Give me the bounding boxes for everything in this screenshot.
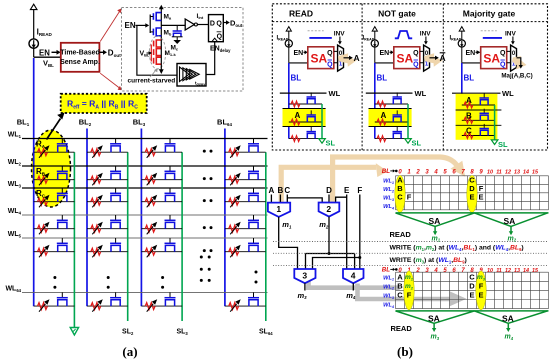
sense amp SA (READ) (308, 47, 334, 69)
svg-text:BL: BL (464, 74, 475, 83)
1T1R cell WL_4 / BL_3 (141, 215, 182, 234)
svg-text:READ: READ (391, 324, 413, 333)
wire m2 output to gates 3 and 4 (306, 217, 355, 269)
svg-text:EN: EN (294, 50, 304, 57)
svg-text:11: 11 (496, 268, 502, 274)
SL arrow and label (NOT) (405, 139, 422, 148)
svg-text:READ: READ (289, 9, 313, 19)
svg-text:4: 4 (433, 268, 438, 274)
current direction arrow below stack (159, 66, 164, 74)
dotted separator line 2 (273, 252, 548, 254)
svg-text:(a): (a) (122, 344, 137, 359)
svg-text:BL: BL (382, 168, 390, 175)
gray write arrow m3 to lower grid (306, 276, 400, 288)
lower SA fan 1 (396, 311, 475, 341)
svg-text:13: 13 (514, 268, 520, 274)
svg-text:15: 15 (532, 169, 539, 175)
dashed title separator line (272, 21, 547, 23)
svg-text:D: D (326, 186, 332, 195)
lower grid yellow column 1 highlight (404, 271, 414, 310)
svg-text:current-starved: current-starved (128, 77, 176, 84)
1T1R cell WL_1 / BL_1 (34, 139, 75, 158)
dotted separator line 1 (273, 241, 548, 243)
upper grid yellow column 8 highlight (467, 175, 477, 212)
INV select arrow (NOT) (420, 31, 432, 45)
majority gate 2 (319, 203, 340, 217)
wire F input down (359, 195, 361, 258)
wire WL_1 row line (22, 138, 268, 140)
wire WL_4 row line (22, 214, 268, 216)
upper SA fan 2 (474, 213, 547, 243)
mux (Majority) (511, 45, 517, 71)
wire WL_2 thin (Majority) (456, 109, 502, 111)
WL line and label (NOT) (366, 89, 427, 98)
svg-text:F: F (357, 186, 362, 195)
svg-text:10: 10 (487, 268, 493, 274)
wires Q and Qbar to mux (READ) (334, 51, 338, 62)
column ellipsis dots (between BL_3 and BL_64) (203, 150, 213, 253)
sense amp SA (Majority) (481, 47, 507, 69)
1T1R cell WL_64 / BL_3 (141, 292, 182, 311)
EN input (NOT) (380, 50, 394, 57)
EN input (inset) (125, 21, 150, 30)
wire M_a/M_b stack rail (160, 12, 162, 40)
svg-text:Maj(A,B,C): Maj(A,B,C) (501, 73, 532, 80)
current source I_READ (NOT panel) (363, 27, 379, 63)
svg-text:SA: SA (502, 314, 514, 324)
svg-text:A: A (354, 53, 360, 63)
svg-text:EN: EN (39, 48, 50, 57)
svg-text:B: B (397, 282, 403, 291)
svg-text:B: B (278, 186, 284, 195)
svg-text:SL: SL (412, 139, 422, 148)
current source I_READ (READ panel) (277, 27, 293, 63)
wire EN gate rail (149, 15, 151, 34)
INV select arrow (Majority) (505, 31, 517, 45)
wire SL vertical (Majority) (494, 105, 496, 140)
waveform flat (READ) (308, 31, 332, 38)
D_out output (inset) (223, 19, 242, 28)
1T1R cell WL_3 / BL_2 (87, 188, 128, 207)
lower grid WL row labels (383, 275, 395, 309)
svg-text:BL: BL (291, 74, 302, 83)
wire V_BL node (34, 57, 61, 68)
svg-text:A: A (397, 272, 403, 281)
svg-text:14: 14 (523, 268, 529, 274)
svg-text:D: D (469, 282, 475, 291)
svg-text:1: 1 (276, 204, 281, 214)
svg-text:READ: READ (390, 230, 412, 239)
dashed panel separator NOT/Majority (442, 4, 444, 150)
wire BL to SA (READ) (289, 62, 308, 64)
upper grid stored letters (397, 176, 483, 202)
svg-text:10: 10 (487, 169, 493, 175)
svg-text:14: 14 (523, 169, 529, 175)
transistor M_a (150, 13, 172, 21)
wire m4 output (352, 283, 354, 290)
wire F branch to gates 3 and 4 (313, 258, 360, 270)
svg-text:SA: SA (429, 216, 441, 226)
wire E input with branch to gate2 and down to gate4 (336, 195, 347, 270)
svg-text:Sense Amp.: Sense Amp. (60, 59, 100, 66)
D_out output arrow (99, 48, 121, 58)
svg-text:(b): (b) (397, 344, 413, 359)
panel (a) crossbar array (5, 4, 273, 359)
svg-text:Q: Q (216, 21, 222, 28)
svg-text:SL: SL (326, 139, 336, 148)
transistor stack M_1-k (current starved, red) (151, 40, 176, 66)
1T1R cell WL_1 / BL_64 (225, 139, 266, 158)
svg-text:12: 12 (505, 169, 511, 175)
svg-text:E: E (344, 186, 350, 195)
lower memory grid (396, 272, 549, 308)
svg-text:WRITE (m3) at (WL1,BL9): WRITE (m3) at (WL1,BL9) (390, 257, 467, 264)
wire BL vertical (READ) (288, 63, 290, 139)
svg-text:NOT gate: NOT gate (378, 9, 416, 19)
lower SA fan 2 (474, 311, 547, 341)
svg-text:A: A (466, 96, 472, 105)
yellow highlight band (NOT) (369, 109, 412, 127)
upper grid BL header (382, 168, 398, 175)
wire delay loop (206, 42, 215, 75)
waveform flat (Majority) (481, 31, 502, 38)
red callout lines to inset (100, 8, 122, 90)
svg-text:A: A (381, 111, 387, 120)
wire BL to SA (Majority) (462, 62, 481, 64)
wire C input with branch to gate2 (287, 195, 322, 203)
1T1R cell WL_64 / BL_1 (34, 292, 75, 311)
wire WL_64 row line (22, 291, 268, 293)
1T1R cell WL_2 / BL_64 (225, 166, 266, 185)
svg-text:tdelay: tdelay (195, 81, 205, 87)
svg-text:A: A (295, 111, 301, 120)
wire WL_2 thin (NOT) (369, 108, 412, 110)
svg-text:F: F (479, 282, 484, 291)
wire WL_2 thin (READ) (283, 108, 326, 110)
1T1R cell WL_2 / BL_3 (141, 166, 182, 185)
wires Q and Qbar to mux (NOT) (420, 51, 424, 62)
svg-text:BL: BL (377, 74, 388, 83)
1T1R cell WL_64 / BL_64 (225, 292, 266, 311)
lower grid m1 m2 m3 written values (405, 274, 486, 290)
svg-text:WL: WL (415, 89, 427, 98)
cell row1 stored A (Majority) (462, 93, 495, 108)
mux (READ) (338, 45, 344, 71)
wires Q and Qbar to mux (Majority) (507, 51, 511, 62)
svg-text:B: B (466, 112, 472, 121)
cell row1 (READ) (289, 92, 322, 107)
wire BL_1 vertical (blue) (33, 58, 35, 306)
VDD arrow (inset) (159, 5, 164, 13)
svg-text:INV: INV (420, 31, 432, 38)
row ellipsis dots (between WL_5 and WL_64) (53, 256, 257, 289)
svg-text:D: D (210, 21, 215, 28)
svg-text:2: 2 (326, 204, 331, 214)
svg-text:SA: SA (504, 216, 516, 226)
inverter (inset) (185, 19, 197, 30)
cell row3 (READ) (289, 127, 322, 141)
1T1R cell WL_5 / BL_3 (141, 238, 182, 257)
cell row3 stored C (Majority) (462, 124, 495, 138)
upper SA fan 1 (396, 213, 475, 243)
majority gate 1 (268, 203, 290, 217)
1T1R cell WL_3 / BL_3 (141, 188, 182, 207)
yellow highlight band (Majority) (456, 94, 498, 140)
svg-text:SA: SA (428, 314, 440, 324)
svg-text:A: A (440, 53, 446, 63)
wire WL_3 thin (Majority) (456, 124, 502, 126)
1T1R cell WL_3 / BL_64 (225, 188, 266, 207)
svg-text:SL: SL (498, 140, 508, 149)
svg-text:A: A (269, 186, 275, 195)
dashed panel separator READ/NOT (361, 4, 363, 150)
wire BL_3 vertical (blue) (140, 129, 142, 307)
svg-text:C: C (397, 193, 403, 202)
majority gate 4 (343, 269, 364, 283)
svg-text:EN: EN (125, 21, 136, 30)
1T1R cell WL_5 / BL_2 (87, 238, 128, 257)
svg-text:E: E (478, 193, 483, 202)
output arrow Abar (NOT) (424, 53, 446, 67)
wire SL_2 vertical (green) (127, 152, 129, 321)
lower grid yellow column 9 highlight (476, 271, 486, 310)
upper memory grid (396, 176, 549, 210)
svg-text:15: 15 (532, 268, 539, 274)
waveform pulse (NOT) (395, 31, 412, 38)
svg-text:3: 3 (302, 271, 307, 281)
cell row3 (NOT) (375, 127, 408, 141)
wire SL_1 vertical (green) (73, 152, 75, 327)
tan flow arrow from gate2 inputs to second stored column (333, 157, 466, 203)
svg-text:C: C (284, 186, 290, 195)
EN input (READ) (294, 50, 308, 57)
svg-text:C: C (466, 127, 472, 136)
output arrow A (READ) (338, 53, 360, 67)
1T1R cell WL_2 / BL_2 (87, 166, 128, 185)
INV select arrow (READ) (334, 31, 346, 45)
svg-text:E: E (469, 291, 474, 300)
output arrow Maj(A,B,C) (Majority) (501, 56, 532, 80)
wire m3 output (304, 283, 306, 290)
1T1R cell WL_3 / BL_1 (34, 188, 75, 207)
EN input (Majority) (466, 50, 481, 57)
svg-text:EN: EN (380, 50, 390, 57)
svg-text:E: E (469, 193, 474, 202)
svg-text:BL: BL (382, 267, 390, 274)
wire EN branch down-left (137, 25, 177, 75)
svg-text:INV: INV (334, 31, 346, 38)
svg-text:F: F (407, 291, 412, 300)
svg-text:E: E (478, 291, 483, 300)
wire A input (270, 195, 272, 203)
svg-text:Majority gate: Majority gate (463, 9, 516, 19)
yellow highlight band (READ) (283, 109, 326, 127)
transistor M_c (171, 25, 183, 51)
panel (b) bottom: majority logic mapping (268, 157, 549, 359)
wire node to inverter (161, 24, 185, 26)
upper grid green bottom rail (396, 212, 549, 214)
svg-text:WL: WL (502, 89, 514, 98)
current source I_READ (panel a) (29, 4, 53, 57)
svg-text:INV: INV (505, 31, 517, 38)
1T1R cell WL_2 / BL_1 (34, 166, 75, 185)
svg-text:EN: EN (466, 50, 476, 57)
Time-Based Sense Amp box (60, 43, 100, 72)
current source I_READ (Majority panel) (450, 27, 466, 63)
svg-text:WRITE (m1,m2) at (WL4,BL1) and: WRITE (m1,m2) at (WL4,BL1) and (WL4,BL9) (390, 245, 524, 252)
WL line and label (Majority) (452, 89, 514, 98)
highlight ellipse around R_A R_B R_C cells (32, 130, 71, 207)
1T1R cell WL_5 / BL_1 (34, 238, 75, 257)
wire SL_3 vertical (green) (181, 152, 183, 321)
lower grid BL header (382, 267, 398, 274)
svg-text:Time-Based: Time-Based (60, 50, 100, 57)
arrow from ellipse to R_eff box (47, 113, 65, 140)
wire BL vertical (NOT) (374, 63, 376, 139)
dotted separator line 3 (273, 265, 548, 267)
tan flow arrow from gate1 inputs to first stored column (281, 163, 388, 202)
current-starved dashed ellipse (149, 36, 165, 69)
panel (b) top: READ / NOT gate / Majority gate (272, 4, 547, 150)
wire BL to SA (NOT) (375, 62, 394, 64)
D flip-flop U_FF (209, 15, 224, 42)
wire BL_64 vertical (blue) (224, 129, 226, 307)
wire WL_3 thin (NOT) (369, 126, 412, 128)
wire BL vertical (Majority) (461, 63, 463, 136)
wire m1 output to gate3 (279, 217, 298, 269)
svg-text:12: 12 (505, 268, 511, 274)
EN input arrow (panel a) (39, 48, 61, 57)
wire B input (279, 195, 281, 203)
ground symbol under M_c (173, 37, 181, 44)
wire SL vertical (NOT) (407, 104, 409, 138)
1T1R cell WL_4 / BL_1 (34, 215, 75, 234)
SL arrow and label (READ) (319, 139, 336, 148)
ground arrow at SL_1 (70, 328, 78, 336)
sense amp SA (NOT) (394, 47, 420, 69)
1T1R cell WL_5 / BL_64 (225, 238, 266, 257)
wire WL_3 thin (READ) (283, 126, 326, 128)
wire SL vertical (READ) (321, 104, 323, 138)
svg-text:11: 11 (496, 169, 502, 175)
svg-text:WL: WL (329, 89, 341, 98)
wire BL_2 vertical (blue) (86, 129, 88, 307)
1T1R cell WL_1 / BL_2 (87, 139, 128, 158)
cell row2 stored A (NOT) (375, 110, 408, 125)
upper grid yellow column 0 highlight (395, 175, 405, 212)
svg-text:2: 2 (415, 169, 420, 175)
majority gate 3 (294, 269, 315, 283)
1T1R cell WL_1 / BL_3 (141, 139, 182, 158)
wire inverter to DFF (197, 24, 208, 26)
lower grid stored letters (397, 272, 483, 299)
1T1R cell WL_4 / BL_2 (87, 215, 128, 234)
delay element t_delay (177, 64, 206, 87)
cell row1 (NOT) (375, 92, 408, 107)
lower grid green bottom rail (396, 310, 549, 312)
1T1R cell WL_64 / BL_2 (87, 292, 128, 311)
1T1R cell WL_4 / BL_64 (225, 215, 266, 234)
lower grid column numbers (398, 268, 539, 274)
dashed outer box (b top) (272, 4, 547, 150)
svg-text:F: F (407, 193, 412, 202)
WL line and label (READ) (280, 89, 341, 98)
inset dashed border (122, 8, 244, 92)
cell row2 stored A (READ) (289, 110, 322, 125)
wire WL_2 row line (22, 165, 268, 167)
svg-text:4: 4 (351, 271, 356, 281)
current-starved label (128, 68, 176, 84)
wire D input (328, 195, 330, 203)
mux (NOT) (424, 45, 430, 71)
wire WL_3 row line (22, 187, 268, 189)
svg-text:C: C (397, 291, 403, 300)
wire SL_64 vertical (green) (265, 152, 267, 321)
wire WL_5 row line (22, 237, 268, 239)
svg-text:2: 2 (415, 268, 420, 274)
svg-text:13: 13 (514, 169, 520, 175)
svg-text:C: C (469, 272, 475, 281)
R_eff formula box (61, 94, 147, 113)
upper grid column numbers (398, 169, 539, 175)
upper grid WL row labels (383, 179, 395, 211)
svg-text:Q: Q (217, 34, 223, 41)
gray write arrow m4 to lower grid (355, 284, 467, 307)
inset: time-based sense amp internals (122, 5, 244, 91)
cell row2 stored B (Majority) (462, 109, 495, 124)
V_BL input (inset) (140, 51, 153, 58)
svg-text:4: 4 (433, 169, 438, 175)
SL arrow and label (Majority) (491, 140, 508, 149)
transistor M_b (150, 28, 172, 37)
